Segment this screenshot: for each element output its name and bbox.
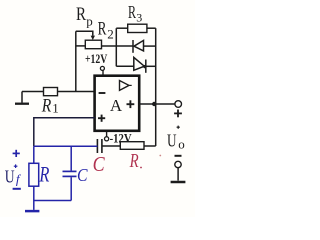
resistor R (tank, blue) <box>29 163 39 186</box>
ground (input, left) <box>15 92 29 104</box>
wire (node to potentiometer) <box>76 45 86 47</box>
wire (rail to R3) <box>116 27 127 29</box>
svg-text:+12V: +12V <box>85 51 108 66</box>
label tiny + (Uf) <box>14 164 18 168</box>
label Uf <box>5 167 22 187</box>
svg-text:R: R <box>39 162 50 187</box>
wiper arrowhead <box>91 36 95 40</box>
ground (tank, blue) <box>25 201 39 212</box>
wire (wiper tie-back top line) <box>76 31 93 36</box>
svg-text:R: R <box>76 4 86 25</box>
left rail <box>115 28 117 66</box>
wire (blue, below tank R) <box>33 186 35 200</box>
wire (series R to series C) <box>102 145 120 147</box>
svg-text:R: R <box>128 2 136 22</box>
wire (pot to diode D1) <box>102 45 134 47</box>
label Rp <box>76 4 93 29</box>
wire (feedback vertical, inverting node) <box>75 31 77 91</box>
wire (rail to diode D2) <box>116 65 134 67</box>
svg-text:U: U <box>5 167 15 187</box>
label R1 <box>41 95 59 116</box>
label + (output) <box>174 110 182 118</box>
wire (blue, down to tank R) <box>33 146 35 163</box>
label tiny + (output) <box>177 126 180 129</box>
wire (D1 to right rail) <box>144 45 156 47</box>
+12V terminal <box>85 51 108 75</box>
wire (blue, tank bottom) <box>34 200 71 202</box>
-12V terminal <box>105 131 133 146</box>
potentiometer Rp body <box>85 40 101 49</box>
wire (R3 to right rail) <box>147 27 156 29</box>
resistor R (series, black) <box>120 142 144 150</box>
wire (series leg: junction down, turn left to R) <box>144 145 156 147</box>
svg-text:A: A <box>110 96 123 115</box>
svg-text:R: R <box>98 18 107 39</box>
svg-text:1: 1 <box>52 100 59 115</box>
resistor R1 <box>44 88 58 96</box>
label + (Uf) <box>13 150 20 157</box>
output terminal circle <box>175 101 182 108</box>
label minus (Uf) <box>13 188 21 190</box>
label R3 <box>128 2 142 25</box>
resistor R3 <box>128 24 147 32</box>
label minus (output) <box>175 155 182 157</box>
svg-text:2: 2 <box>107 27 114 42</box>
svg-text:R: R <box>129 150 139 172</box>
wire (D2 to right rail) <box>146 65 156 67</box>
svg-text:3: 3 <box>136 11 142 25</box>
op-amp triangle symbol <box>120 81 130 91</box>
node (output junction) <box>152 102 156 106</box>
label Uo <box>167 130 185 151</box>
wire (ground to R1) <box>22 91 44 93</box>
op-amp output plus mark <box>127 100 135 108</box>
label R2 <box>98 18 114 41</box>
ground (output) <box>171 168 186 182</box>
wire (R1 to op-amp inverting input) <box>58 91 95 93</box>
right rail (down to series leg) <box>155 28 157 146</box>
svg-text:C: C <box>93 152 106 176</box>
bottom terminal circle <box>175 161 181 167</box>
wire (blue, tank top to series C) <box>34 145 98 147</box>
svg-text:U: U <box>167 130 177 150</box>
capacitor C (tank, blue) <box>63 146 77 200</box>
svg-text:o: o <box>178 137 185 152</box>
wire (non-inverting input path) <box>34 118 95 147</box>
op-amp plus input mark <box>98 115 105 122</box>
capacitor C (series, black plates) <box>97 139 102 153</box>
svg-text:C: C <box>77 165 88 185</box>
op-amp U1 (block A) <box>95 76 140 131</box>
op-amp minus input mark <box>99 92 106 94</box>
wire (op-amp output) <box>139 103 175 105</box>
diode D1 (points left) <box>133 40 144 53</box>
red speck <box>159 155 161 157</box>
svg-text:p: p <box>86 14 93 29</box>
svg-text:R: R <box>41 95 52 116</box>
diode D2 (points right) <box>134 57 146 72</box>
